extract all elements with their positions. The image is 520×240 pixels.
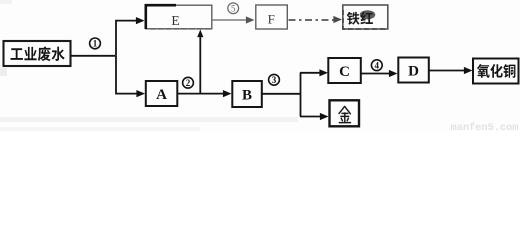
arrow into 铁红 — [333, 16, 342, 23]
svg-text:5: 5 — [231, 4, 236, 14]
box F — [256, 5, 287, 29]
junction wire up into E bottom — [199, 35, 201, 94]
wire to 金 — [300, 116, 321, 118]
arrow into E — [136, 17, 145, 24]
box 工业废水 (industrial wastewater) — [4, 41, 71, 66]
box 金 (gold) — [330, 100, 360, 126]
box E — [146, 5, 212, 29]
box 铁红 (iron red) — [343, 5, 388, 29]
wire D to 氧化铜 — [429, 70, 465, 72]
wire to C — [300, 72, 321, 74]
branch wire up to E row — [116, 21, 136, 56]
svg-text:manfen5.com: manfen5.com — [451, 122, 519, 131]
arrow up into E — [197, 30, 203, 38]
svg-text:E: E — [171, 13, 179, 28]
arrow into A — [136, 90, 145, 97]
svg-text:2: 2 — [186, 78, 191, 88]
svg-text:1: 1 — [93, 39, 98, 49]
label ③ — [269, 74, 280, 85]
svg-text:D: D — [408, 64, 419, 80]
arrow into C — [319, 69, 328, 76]
arrow into F — [246, 16, 255, 23]
box 氧化铜 (copper oxide) — [473, 59, 519, 84]
label ② — [183, 77, 194, 88]
svg-text:4: 4 — [375, 60, 380, 70]
svg-text:3: 3 — [272, 75, 277, 85]
arrow into B — [223, 90, 232, 97]
arrow into D — [389, 70, 398, 77]
wire B to branch — [262, 93, 301, 95]
branch vertical C/金 — [300, 73, 302, 117]
box D — [398, 58, 429, 83]
box C — [328, 58, 361, 83]
box A — [146, 81, 178, 106]
wire A to B — [177, 93, 227, 95]
wire C to D — [361, 73, 392, 75]
label ④ — [371, 60, 382, 71]
wire 工业废水 to branch point — [71, 55, 116, 57]
svg-text:B: B — [242, 88, 252, 104]
wire E to F — [212, 19, 247, 21]
svg-text:A: A — [156, 87, 167, 103]
dashed wire F to 铁红 — [289, 19, 335, 21]
svg-text:F: F — [268, 11, 275, 26]
label ① — [90, 38, 101, 49]
arrow into 氧化铜 — [464, 67, 473, 74]
branch wire down to A row — [116, 56, 137, 94]
box B — [232, 81, 261, 107]
svg-text:C: C — [339, 64, 350, 80]
arrow into 金 — [320, 113, 329, 120]
label ⑤ — [228, 3, 239, 14]
